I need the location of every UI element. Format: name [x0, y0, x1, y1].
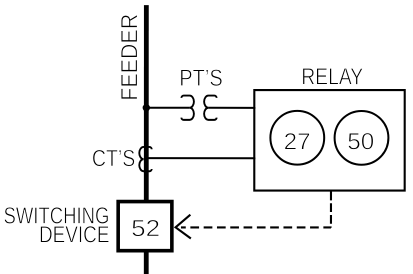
- arrowhead at switching device: [176, 215, 191, 239]
- wire: CT secondary to relay input: [146, 157, 255, 159]
- dashed control line: relay output, vertical segment: [330, 192, 332, 228]
- svg-text:RELAY: RELAY: [301, 63, 363, 89]
- svg-text:PT’S: PT’S: [179, 65, 223, 91]
- relay box: [254, 90, 404, 191]
- svg-text:DEVICE: DEVICE: [39, 221, 110, 247]
- svg-text:CT’S: CT’S: [92, 145, 136, 171]
- CT coil on feeder: [139, 147, 151, 171]
- feeder bus (thick vertical wire, lower segment below switching device): [144, 251, 149, 274]
- wire: feeder tap to PT primary: [146, 107, 189, 109]
- svg-text:27: 27: [284, 128, 311, 154]
- relay function circle 50 (overcurrent): [335, 111, 389, 165]
- PT secondary coil: [204, 96, 217, 120]
- wire: PT secondary to relay input: [208, 107, 255, 109]
- svg-text:50: 50: [347, 128, 374, 154]
- relay function circle 27 (undervoltage): [270, 111, 324, 165]
- svg-text:FEEDER: FEEDER: [116, 14, 142, 101]
- switching device box (breaker 52): [118, 202, 172, 251]
- dashed control line: horizontal segment to switching device: [181, 226, 331, 228]
- node: junction dot (feeder / PT tap): [143, 104, 150, 111]
- svg-text:52: 52: [131, 215, 160, 241]
- feeder bus (thick vertical wire, upper segment): [144, 5, 149, 201]
- PT primary coil: [181, 96, 194, 120]
